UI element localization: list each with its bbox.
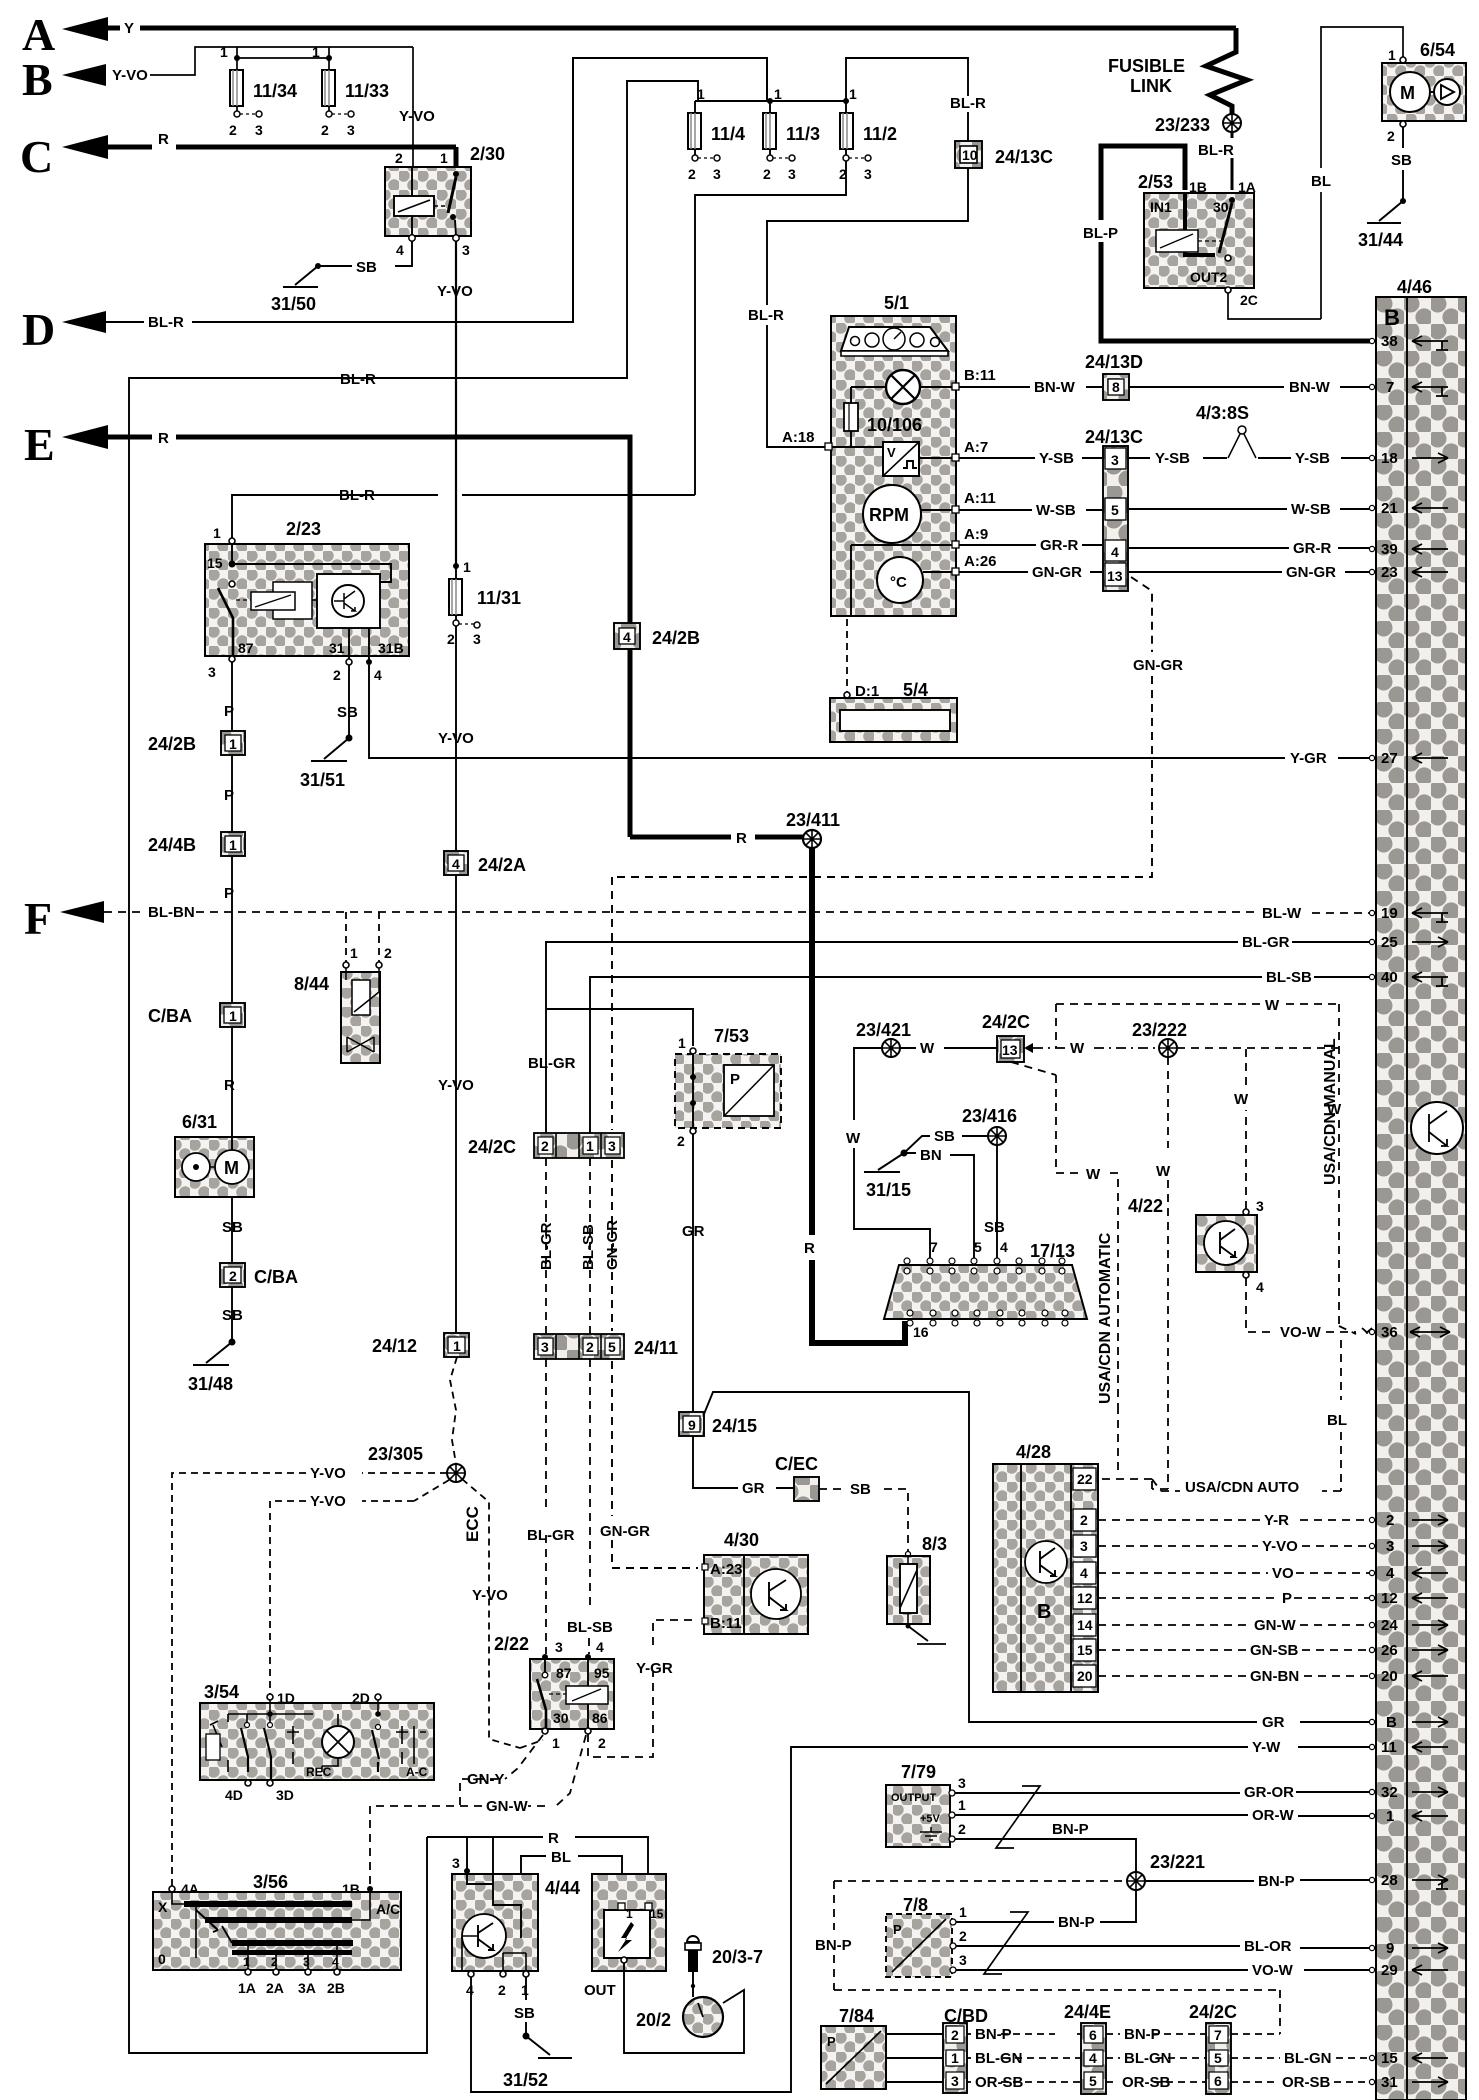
temperature gauge (5/1 internal) (851, 545, 952, 616)
svg-text:2: 2 (677, 1133, 685, 1149)
wire BN-P (24/2C 7 dashed to box corner) (1231, 2033, 1280, 2035)
svg-text:32: 32 (1381, 1784, 1398, 1801)
svg-text:23: 23 (1381, 564, 1398, 581)
svg-text:31/50: 31/50 (271, 294, 316, 314)
pressure sensor 7/53 (675, 1026, 781, 1149)
svg-text:15: 15 (1077, 1642, 1093, 1658)
pin 26 (4/46) (1369, 1642, 1448, 1659)
svg-text:1: 1 (959, 1904, 967, 1920)
svg-text:Y-VO: Y-VO (112, 67, 148, 84)
svg-text:40: 40 (1381, 969, 1398, 986)
svg-text:1: 1 (849, 86, 857, 102)
svg-text:7/53: 7/53 (714, 1026, 749, 1046)
svg-text:W: W (1156, 1163, 1171, 1180)
svg-text:C/BA: C/BA (254, 1267, 298, 1287)
fuse 11/3 (763, 86, 820, 182)
svg-text:SB: SB (222, 1307, 243, 1324)
wire BL-GN (C/BD 1 dashed to 24/4E 4) (967, 2050, 1081, 2067)
svg-text:20: 20 (1381, 1668, 1398, 1685)
svg-text:20/2: 20/2 (636, 2010, 671, 2030)
svg-text:3: 3 (608, 1138, 616, 1154)
svg-text:F: F (24, 893, 52, 944)
svg-text:BL-GR: BL-GR (1242, 934, 1290, 951)
wire W (23/222 branch down to 17/13 region) (1152, 1057, 1171, 1489)
svg-text:Y: Y (124, 20, 134, 37)
svg-text:30: 30 (1213, 199, 1229, 215)
ground 31/48 (188, 1339, 236, 1395)
svg-text:3: 3 (462, 242, 470, 258)
wire R (C/BA to motor 6/31) (224, 1027, 235, 1137)
svg-text:1: 1 (220, 44, 228, 60)
svg-text:36: 36 (1381, 1324, 1398, 1341)
node C (page link arrow) (20, 131, 169, 182)
svg-text:P: P (827, 2034, 836, 2049)
ground (8/3) (906, 1624, 947, 1645)
V-pulse converter (5/1 internal) (883, 442, 952, 476)
pressure sensor 7/84 (821, 2006, 943, 2089)
wire BN (ground junction to 17/13 pin 5) (904, 1147, 974, 1258)
svg-text:Y-R: Y-R (1264, 1512, 1289, 1529)
svg-text:8/44: 8/44 (294, 974, 329, 994)
pin A:18 (5/1) (782, 429, 883, 450)
svg-text:OR-SB: OR-SB (975, 2074, 1024, 2091)
wire W (USA/CDN MANUAL dashed box top) (1056, 997, 1342, 1326)
svg-text:8/3: 8/3 (922, 1534, 947, 1554)
svg-text:2: 2 (333, 667, 341, 683)
svg-text:W: W (1086, 1166, 1101, 1183)
connector C/BD (943, 2006, 988, 2093)
ignition coil (4/44 right unit) (584, 1874, 666, 1999)
svg-text:FUSIBLE: FUSIBLE (1108, 56, 1185, 76)
svg-text:3: 3 (788, 166, 796, 182)
svg-text:31/48: 31/48 (188, 1374, 233, 1394)
pin 3 (4/46) (1369, 1538, 1448, 1555)
wire BL-BN / BL-W (F-row dashed to connector pin 19) (104, 905, 1372, 922)
wire Y-VO (24/2A down to 24/12) (438, 875, 474, 1333)
wire BL-R (fuse 11/4 chain down the left side) (129, 81, 698, 2053)
svg-text:OR-W: OR-W (1252, 1807, 1294, 1824)
svg-text:9: 9 (688, 1417, 696, 1433)
svg-text:11/33: 11/33 (345, 81, 389, 101)
pin A:26 (5/1) (952, 553, 997, 575)
wire Y-GR (2/22 pin 2 to 4/30 B:11) (588, 1620, 698, 1757)
fuse 11/31 (447, 559, 521, 647)
wire Y (thick, A-row to fusible link) (108, 26, 1236, 31)
wire BN-W (5/1 B:11 to 24/13D to pin 7) (959, 379, 1372, 396)
svg-text:GN-BN: GN-BN (1250, 1668, 1299, 1685)
wire VO-W (4/22 pin 4 dashed to connector pin 36) (1246, 1278, 1372, 1341)
svg-text:R: R (548, 1830, 559, 1847)
instrument cluster 5/1 (831, 293, 956, 616)
svg-text:15: 15 (650, 1907, 664, 1921)
distributor 20/2 (636, 1997, 723, 2037)
svg-text:6: 6 (1214, 2073, 1222, 2089)
svg-text:GR-R: GR-R (1040, 537, 1078, 554)
svg-text:SB: SB (984, 1219, 1005, 1236)
svg-text:6/31: 6/31 (182, 1112, 217, 1132)
svg-text:1: 1 (463, 559, 471, 575)
svg-text:M: M (1400, 83, 1415, 103)
splice 23/233 (1155, 114, 1241, 135)
wire BN-P (7/79 pin 2 down to splice 23/221) (955, 1821, 1136, 1872)
svg-text:1A: 1A (238, 1980, 256, 1996)
wire BN-P (C/BD 2 dashed to 24/4E 6) (967, 2026, 1081, 2043)
ground 31/51 (300, 735, 353, 791)
svg-text:1: 1 (697, 86, 705, 102)
wire VO (4/28 pin 4 to connector pin 4) (1098, 1565, 1372, 1582)
svg-text:31/51: 31/51 (300, 770, 345, 790)
pin 4 (4/46) (1369, 1565, 1448, 1582)
fuse 11/34 (220, 44, 297, 138)
pin 39 (4/46) (1369, 541, 1448, 558)
svg-text:9: 9 (1386, 1940, 1394, 1957)
transistor symbol (on 4/46 strip) (1411, 1102, 1463, 1154)
svg-text:2: 2 (763, 166, 771, 182)
svg-text:BL-P: BL-P (1083, 225, 1118, 242)
svg-text:Y-SB: Y-SB (1295, 450, 1330, 467)
svg-text:A-C: A-C (406, 1765, 428, 1779)
svg-text:4: 4 (332, 1955, 339, 1969)
svg-text:°C: °C (890, 574, 907, 591)
svg-text:11/4: 11/4 (711, 124, 745, 144)
svg-text:C/EC: C/EC (775, 1454, 818, 1474)
wire BL-R (24/13C pin 10 down to 5/1 pin A:18) (748, 168, 968, 447)
pin 11 (4/46) (1369, 1739, 1448, 1756)
svg-text:BL-GR: BL-GR (528, 1055, 576, 1072)
svg-text:Y-VO: Y-VO (437, 283, 473, 300)
svg-text:3: 3 (958, 1775, 966, 1791)
wire Y-VO (23/305 dashed left-down to 3/54 pin 1D) (270, 1480, 449, 1694)
svg-text:3: 3 (347, 122, 355, 138)
connector 24/15 pin 9 (679, 1412, 757, 1436)
svg-text:BL: BL (551, 1849, 571, 1866)
svg-text:A:7: A:7 (964, 439, 988, 456)
connector 24/4E (1064, 2002, 1111, 2094)
wire P (4/28 pin 12 to connector pin 12) (1098, 1590, 1372, 1607)
svg-text:38: 38 (1381, 333, 1398, 350)
wire Y-VO (4/28 pin 3 to connector pin 3) (1098, 1538, 1372, 1555)
ground 31/52 (503, 2033, 572, 2091)
svg-text:4: 4 (1256, 1279, 1264, 1295)
svg-text:VO-W: VO-W (1280, 1324, 1322, 1341)
wire SB (6/54 pin 2 to ground 31/44) (1391, 127, 1412, 200)
svg-text:OUT2: OUT2 (1190, 269, 1228, 285)
svg-text:GN-GR: GN-GR (1286, 564, 1336, 581)
svg-text:4/44: 4/44 (545, 1878, 580, 1898)
ECU 4/28 (993, 1442, 1098, 1692)
wire BL-R (fuse 11/2 pin 2 down-left) (695, 161, 846, 495)
pin 32 (4/46) (1369, 1784, 1448, 1801)
svg-text:20: 20 (1077, 1668, 1093, 1684)
svg-text:3: 3 (951, 2073, 959, 2089)
svg-text:3: 3 (541, 1339, 549, 1355)
svg-text:P: P (730, 1071, 740, 1088)
svg-text:1: 1 (678, 1035, 686, 1051)
wire BN-P (24/4E 6 dashed to 24/2C 7) (1106, 2026, 1206, 2043)
svg-text:1: 1 (453, 1338, 461, 1354)
svg-text:1: 1 (958, 1797, 966, 1813)
svg-text:E: E (24, 419, 55, 470)
connector 24/12 pin 1 (372, 1333, 469, 1357)
blower switch 3/56 (153, 1872, 401, 1996)
svg-text:5: 5 (1089, 2073, 1097, 2089)
wire SB (2/23 pin 2 to ground 31/51) (337, 665, 358, 737)
svg-text:7: 7 (1386, 379, 1394, 396)
wire SB (4/44 pin 1 to ground 31/52) (514, 1977, 535, 2035)
svg-text:1: 1 (1386, 1808, 1394, 1825)
svg-text:1: 1 (243, 1955, 250, 1969)
lambda sensor heater 4/22 (1128, 1196, 1264, 1295)
svg-text:3: 3 (1256, 1198, 1264, 1214)
svg-text:GN-Y: GN-Y (467, 1771, 505, 1788)
svg-text:31/15: 31/15 (866, 1180, 911, 1200)
svg-text:7/8: 7/8 (903, 1895, 928, 1915)
pin B:11 (5/1) (952, 367, 996, 390)
svg-text:24/15: 24/15 (712, 1416, 757, 1436)
svg-text:2: 2 (1386, 1512, 1394, 1529)
svg-text:4D: 4D (225, 1787, 243, 1803)
wire BN-P (dashed from 7/8 box edge to 23/221, solid to pin 28) (834, 1873, 1372, 1890)
svg-text:3: 3 (303, 1955, 310, 1969)
svg-text:VO: VO (1272, 1565, 1294, 1582)
svg-text:Y-VO: Y-VO (438, 730, 474, 747)
svg-text:A:26: A:26 (964, 553, 997, 570)
pin 25 (4/46) (1369, 934, 1448, 951)
wire R (thick, C-row to 2/30 pin 1) (108, 147, 456, 167)
svg-text:BL-SB: BL-SB (1266, 969, 1312, 986)
svg-text:23/411: 23/411 (786, 810, 840, 830)
wire Y-SB (5/1 A:7 to 24/13C pin 3 to pin 18) (959, 450, 1372, 467)
lamp (5/1 warning bulb) (851, 370, 952, 404)
svg-text:22: 22 (1077, 1471, 1093, 1487)
svg-text:BL-GN: BL-GN (1124, 2050, 1172, 2067)
wire VO-W (7/8 pin 3 to connector pin 29) (956, 1962, 1372, 1979)
svg-text:4: 4 (1089, 2050, 1097, 2066)
svg-text:28: 28 (1381, 1872, 1398, 1889)
cable shield slash (7/79 harness) (996, 1786, 1040, 1848)
pin 15 (4/46) (1369, 2050, 1448, 2067)
svg-text:5/1: 5/1 (884, 293, 909, 313)
resistor 8/3 (887, 1534, 947, 1624)
svg-text:3A: 3A (298, 1980, 316, 1996)
svg-text:15: 15 (207, 555, 223, 571)
wire OR-W (7/79 pin 1 to connector pin 1) (955, 1807, 1372, 1824)
svg-text:1: 1 (312, 44, 320, 60)
svg-text:Y-SB: Y-SB (1039, 450, 1074, 467)
wire BL-P (thick, 2/53 pin 1B loop to connector pin 38) (1083, 146, 1372, 341)
svg-text:R: R (158, 131, 169, 148)
svg-text:2: 2 (271, 1955, 278, 1969)
connector C/EC (775, 1454, 819, 1501)
wire BL-R (D-row up over to fuse 11/3) (106, 58, 767, 322)
wire OR-SB (24/4E 5 dashed to 24/2C 6) (1106, 2074, 1206, 2091)
svg-text:OR-SB: OR-SB (1122, 2074, 1171, 2091)
relay 2/23 (205, 519, 409, 660)
svg-text:Y-GR: Y-GR (636, 1660, 673, 1677)
svg-text:GR-OR: GR-OR (1244, 1784, 1294, 1801)
svg-text:2/23: 2/23 (286, 519, 321, 539)
wire R (thick, E-row to 23/411) (108, 437, 803, 847)
wire USA/CDN AUTO (dashed row to 4/28 pin 22) (1102, 1479, 1300, 1496)
wire Y-VO (23/305 dashed left and down to 3/56 pin 4A) (172, 1465, 447, 1886)
svg-text:R: R (158, 430, 169, 447)
svg-text:BL-OR: BL-OR (1244, 1938, 1292, 1955)
svg-text:24/2B: 24/2B (148, 734, 196, 754)
svg-text:1: 1 (521, 1982, 529, 1998)
svg-text:BL-R: BL-R (1198, 142, 1234, 159)
pin 3 (2/23) (208, 656, 235, 680)
svg-text:BN-P: BN-P (1058, 1914, 1095, 1931)
pin 1 (4/46) (1369, 1808, 1448, 1825)
svg-text:24/2A: 24/2A (478, 855, 526, 875)
svg-text:23/222: 23/222 (1132, 1020, 1187, 1040)
connector 4/46 (1376, 277, 1466, 2100)
power stage 4/44 (452, 1855, 580, 1998)
svg-text:P: P (224, 885, 234, 902)
svg-text:W: W (1265, 997, 1280, 1014)
svg-text:1: 1 (586, 1138, 594, 1154)
wire BN-P (7/8 pin 1 up to 23/221) (956, 1890, 1136, 1931)
pin 29 (4/46) (1369, 1962, 1448, 1979)
relay 2/53 (1138, 172, 1258, 308)
svg-text:GR-R: GR-R (1293, 540, 1331, 557)
svg-text:3: 3 (208, 664, 216, 680)
wire GR-OR (7/79 pin 3 to connector pin 32) (955, 1784, 1372, 1801)
pin B (4/46) (1369, 1714, 1448, 1731)
svg-text:3: 3 (255, 122, 263, 138)
wire Y-VO (2/30 pin 3 down to fuse 11/31) (437, 241, 473, 566)
svg-text:BL-R: BL-R (748, 307, 784, 324)
svg-text:3: 3 (1386, 1538, 1394, 1555)
spark plugs 20/3-7 (685, 1936, 763, 1997)
svg-text:4: 4 (374, 667, 382, 683)
pin A:7 (5/1) (952, 439, 988, 461)
pin 21 (4/46) (1369, 500, 1448, 517)
svg-text:USA/CDN AUTO: USA/CDN AUTO (1185, 1479, 1300, 1496)
svg-text:X: X (158, 1899, 168, 1915)
svg-text:A:11: A:11 (964, 490, 996, 507)
svg-text:3: 3 (959, 1952, 967, 1968)
wire BL-SB (24/11 cell 2 dashed down to 2/22 pin 4) (567, 1359, 613, 1654)
svg-text:24/2C: 24/2C (468, 1137, 516, 1157)
svg-text:B: B (1386, 1714, 1397, 1731)
splice 23/416 (962, 1106, 1017, 1145)
svg-text:24/4B: 24/4B (148, 835, 196, 855)
svg-text:24/12: 24/12 (372, 1336, 417, 1356)
svg-text:2: 2 (498, 1982, 506, 1998)
svg-text:12: 12 (1077, 1590, 1093, 1606)
svg-text:BL-R: BL-R (148, 314, 184, 331)
pump motor 6/31 (175, 1112, 254, 1197)
wire SB (C/BA pin 2 to ground 31/48) (222, 1287, 243, 1341)
wire Y-VO ECC branch (23/305 dashed down to 2/22 pin 1) (462, 1479, 543, 1748)
wire BL (2/53 pin 2C and 6/54 pin 1 long vertical) (1228, 27, 1403, 319)
connector 24/2C strip (cells 2,-,1,3) (468, 1133, 624, 1158)
wire BL-OR (7/8 pin 2 to connector pin 9) (956, 1938, 1372, 1955)
svg-text:GN-SB: GN-SB (1250, 1642, 1299, 1659)
svg-text:4/46: 4/46 (1397, 277, 1432, 297)
svg-text:27: 27 (1381, 750, 1398, 767)
svg-text:Y-GR: Y-GR (1290, 750, 1327, 767)
svg-text:B: B (1037, 1601, 1051, 1623)
svg-text:7: 7 (1214, 2027, 1222, 2043)
svg-text:6: 6 (1089, 2027, 1097, 2043)
svg-text:SB: SB (337, 704, 358, 721)
svg-text:2: 2 (598, 1735, 606, 1751)
svg-text:W: W (1234, 1091, 1249, 1108)
wire P (24/4B down to C/BA pin 1) (224, 856, 234, 1003)
svg-text:25: 25 (1381, 934, 1398, 951)
svg-text:23/221: 23/221 (1150, 1852, 1205, 1872)
svg-text:1: 1 (951, 2050, 959, 2066)
connector 24/2B pin 1 (148, 731, 245, 755)
pin 36 (4/46) (1369, 1324, 1450, 1341)
wire GN-BN (4/28 pin 20 to connector pin 20) (1098, 1668, 1372, 1685)
svg-text:A:9: A:9 (964, 526, 988, 543)
svg-text:24/13D: 24/13D (1085, 352, 1143, 372)
wire P (2/23 pin 3 down through 24/2B, 24/4B) (224, 662, 234, 731)
wire SB (2/30 pin 4 to ground 31/50) (318, 241, 412, 276)
pin 38 (4/46) (1369, 333, 1448, 350)
svg-text:4: 4 (396, 242, 404, 258)
splice 23/411 (786, 810, 840, 848)
pin 27 (4/46) (1369, 750, 1448, 767)
wire P (between 24/2B and 24/4B) (224, 755, 234, 832)
svg-text:GR: GR (682, 1223, 705, 1240)
svg-text:BN-P: BN-P (975, 2026, 1012, 2043)
svg-text:IN1: IN1 (1150, 199, 1172, 215)
svg-text:2: 2 (229, 1268, 237, 1284)
svg-text:Y-VO: Y-VO (472, 1587, 508, 1604)
wire Y-GR (2/23 pin 4 to connector pin 27) (369, 665, 1372, 767)
svg-text:RPM: RPM (869, 505, 909, 525)
svg-text:31: 31 (329, 640, 345, 656)
svg-text:2: 2 (586, 1339, 594, 1355)
svg-text:BL-BN: BL-BN (148, 904, 195, 921)
wire W (24/2C pin 13 branch down USA/CDN AUTOMATIC) (1011, 1062, 1118, 1474)
svg-text:3D: 3D (276, 1787, 294, 1803)
svg-text:R: R (736, 830, 747, 847)
wire W (23/421 branch down to 17/13 pin 7) (846, 1048, 930, 1258)
svg-text:4: 4 (623, 629, 631, 645)
pin 40 (4/46) (1369, 969, 1448, 986)
svg-text:11/3: 11/3 (786, 124, 820, 144)
wire GN-GR (5/1 A:26 to 24/13C pin 13 to pin 23) (959, 564, 1372, 581)
wire W (23/222 dashed right into USA/CDN MANUAL box) (1177, 1047, 1339, 1049)
pin 19 (4/46) (1369, 905, 1448, 922)
wire SB (6/31 to C/BA pin 2) (222, 1197, 243, 1263)
svg-text:BL-GN: BL-GN (1284, 2050, 1332, 2067)
pin 28 (4/46) (1369, 1872, 1448, 1889)
svg-text:D: D (22, 304, 55, 355)
svg-text:1: 1 (350, 945, 358, 961)
svg-text:BL-R: BL-R (340, 371, 376, 388)
svg-text:ECC: ECC (463, 1506, 482, 1542)
connector 24/13D pin 8 (1085, 352, 1143, 400)
wire GR (24/15 down to C/EC) (693, 1436, 794, 1497)
motor 6/54 (1382, 40, 1466, 144)
svg-text:+5V: +5V (920, 1813, 941, 1825)
node F (page link arrow) (24, 893, 195, 944)
splice 23/222 (1132, 1020, 1187, 1057)
svg-text:4: 4 (1111, 544, 1119, 560)
connector C/BA pin 1 (148, 1003, 245, 1027)
svg-text:4: 4 (466, 1982, 474, 1998)
svg-text:OUTPUT: OUTPUT (891, 1792, 937, 1804)
fuse 11/4 (688, 86, 745, 182)
connector C/BA pin 2 (220, 1263, 298, 1287)
svg-text:4: 4 (596, 1639, 604, 1655)
